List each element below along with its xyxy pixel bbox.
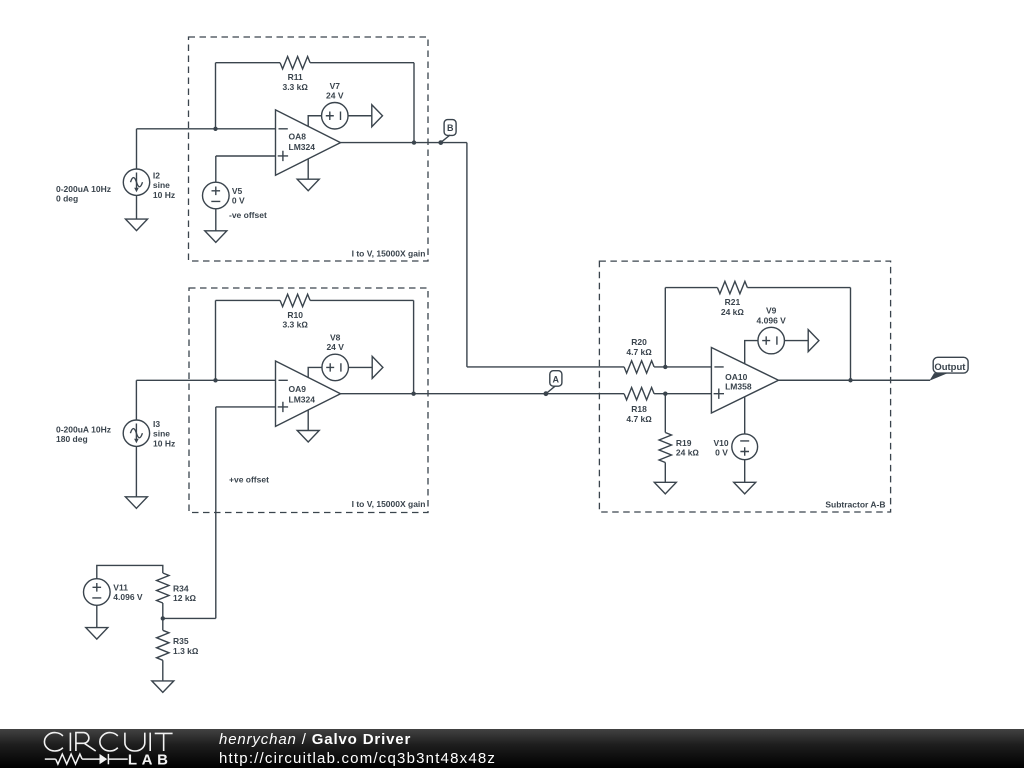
svg-text:LM358: LM358 [725,382,752,392]
wire V9 to ground [785,340,809,342]
wire OA10 V- pin to V10 [744,397,746,434]
svg-text:R21: R21 [725,297,741,307]
op-amp OA10 [711,348,778,413]
CircuitLab logo resistor [56,754,82,764]
ground (under V5) [205,209,227,243]
node junction dot (R19 tap) [663,392,667,396]
wire OA8 output [341,142,467,144]
wire OA10 output [779,379,931,381]
svg-text:sine: sine [153,429,170,439]
svg-text:http://circuitlab.com/cq3b3nt4: http://circuitlab.com/cq3b3nt48x48z [219,750,496,767]
svg-text:I2: I2 [153,170,160,180]
ground (under R35) [152,681,174,693]
wire R21 right vertical [850,288,852,381]
resistor R10 [280,294,310,329]
svg-text:V11: V11 [113,582,128,592]
svg-text:10 Hz: 10 Hz [153,190,175,200]
CircuitLab logo letters CIRCUIT (drawn) [44,733,172,751]
resistor R19 [659,394,699,463]
wire R20 to OA10 inverting input [654,366,711,368]
resistor R21 [717,281,747,316]
wire R21 left vertical [664,288,666,367]
svg-text:Subtractor A-B: Subtractor A-B [825,500,885,510]
op-amp OA8 [276,110,341,175]
svg-text:V7: V7 [330,81,341,91]
voltage source V5 [203,182,267,220]
wire OA10 V+ pin to V9 [745,341,758,364]
wire OA8 V- pin to ground [307,159,309,179]
wire inverting input (stage 2) [136,379,275,381]
ground (under I3) [125,446,147,508]
wire inverting input (stage 1) [137,128,276,130]
svg-text:OA8: OA8 [289,131,307,141]
node junction dot (stage 1 inverting input) [213,127,217,131]
wire R34 to junction [162,603,164,618]
wire feedback top-right (stage 1) [310,62,414,64]
svg-text:henrychan / Galvo Driver: henrychan / Galvo Driver [219,731,411,748]
svg-text:OA9: OA9 [289,384,307,394]
wire feedback left vertical (stage 1) [215,63,217,129]
CircuitLab logo schematic row: wire [45,758,56,760]
wire +ve offset vertical (stage 2 to divider) [215,407,217,619]
node junction dot (stage 1 output) [412,140,416,144]
svg-text:R20: R20 [631,337,647,347]
wire V5 to non-inverting input [215,156,217,182]
svg-text:24 kΩ: 24 kΩ [721,307,745,317]
svg-text:0 deg: 0 deg [56,194,78,204]
wire feedback right vertical (stage 2) [413,300,415,393]
svg-text:-ve offset: -ve offset [229,210,267,220]
svg-text:0-200uA 10Hz: 0-200uA 10Hz [56,184,111,194]
svg-text:24 V: 24 V [326,91,344,101]
svg-text:1.3 kΩ: 1.3 kΩ [173,646,199,656]
wire V7 to ground [348,115,372,117]
svg-text:4.096 V: 4.096 V [113,592,143,602]
wire R21 top-left [665,287,717,289]
wire V10 to ground [744,460,746,483]
svg-text:4.096 V: 4.096 V [757,315,787,325]
wire feedback top-left (stage 1) [216,62,281,64]
svg-text:4.7 kΩ: 4.7 kΩ [626,347,652,357]
svg-text:LAB: LAB [128,751,173,768]
svg-text:R18: R18 [631,404,647,414]
op-amp OA9 [276,361,341,426]
ground (right of V7, rotated) [372,105,383,127]
svg-text:+ve offset: +ve offset [229,474,269,484]
voltage source V11 [84,579,143,606]
node A flag [544,371,562,396]
svg-text:3.3 kΩ: 3.3 kΩ [282,320,308,330]
wire R35 to ground [162,660,164,681]
wire node B to R20 [467,366,624,368]
svg-text:R35: R35 [173,636,189,646]
node junction dot (output feedback tap) [848,378,852,382]
node B flag [438,120,456,145]
wire feedback right vertical (stage 1) [413,63,415,143]
node junction dot (R21 tap) [663,365,667,369]
voltage source V9 [757,306,787,354]
svg-text:R34: R34 [173,584,189,594]
svg-text:OA10: OA10 [725,372,747,382]
ground (under OA8) [297,179,319,191]
wire I3 to input [135,380,137,420]
svg-text:3.3 kΩ: 3.3 kΩ [282,82,308,92]
svg-text:B: B [447,123,454,133]
svg-text:10 Hz: 10 Hz [153,438,175,448]
svg-text:A: A [553,375,560,385]
svg-text:R10: R10 [287,310,303,320]
voltage source V7 [322,81,349,129]
wire I2 to input [136,129,138,169]
svg-text:0-200uA 10Hz: 0-200uA 10Hz [56,424,111,434]
svg-text:V10: V10 [713,438,728,448]
svg-text:I to V, 15000X gain: I to V, 15000X gain [352,499,426,509]
resistor R35 [157,618,199,660]
annotation box: I to V stage 1 [189,37,429,261]
ground (under OA9) [297,431,319,443]
node junction dot (stage 2 inverting input) [213,378,217,382]
svg-text:sine: sine [153,180,170,190]
svg-text:12 kΩ: 12 kΩ [173,593,197,603]
svg-text:180 deg: 180 deg [56,434,88,444]
wire feedback left vertical (stage 2) [215,300,217,380]
svg-text:V5: V5 [232,186,243,196]
ground (under V10) [734,482,756,494]
voltage source V8 [322,333,349,381]
current source I3 [56,419,175,448]
CircuitLab logo diode [100,754,108,764]
node junction dot (stage 2 output) [411,392,415,396]
svg-text:LM324: LM324 [289,142,316,152]
svg-text:R11: R11 [288,72,303,82]
node Output flag [929,357,968,381]
wire V11 to ground [96,605,98,627]
svg-text:I3: I3 [153,419,160,429]
wire OA9 V- pin to ground [307,410,309,430]
svg-text:4.7 kΩ: 4.7 kΩ [626,414,652,424]
annotation box: Subtractor A-B [599,261,890,512]
footer bar [0,729,1024,768]
wire R18 to OA10 non-inverting input [654,393,711,395]
wire V8 to ground [349,366,373,368]
resistor R20 [624,337,654,373]
wire non-inverting input (stage 1) [216,155,276,157]
wire non-inverting input (stage 2) [216,406,276,408]
svg-text:Output: Output [934,362,966,373]
ground (right of V9, rotated) [808,330,819,352]
resistor R18 [624,388,654,424]
node junction dot (divider tap) [161,616,165,620]
svg-text:V9: V9 [766,306,777,316]
svg-text:0 V: 0 V [715,448,728,458]
wire OA9 output to R18 (node A line) [341,393,625,395]
wire V11 to R34 [97,565,163,578]
wire feedback top-left (stage 2) [216,299,281,301]
wire R21 top-right [747,287,850,289]
ground (under I2) [126,195,148,230]
svg-text:LM324: LM324 [289,395,316,405]
wire node B vertical [466,143,468,367]
svg-text:V8: V8 [330,333,341,343]
wire divider tap to +ve offset vertical [163,617,216,619]
svg-text:R19: R19 [676,438,692,448]
svg-text:0 V: 0 V [232,196,245,206]
ground (under V11) [86,628,108,640]
svg-text:24 kΩ: 24 kΩ [676,448,700,458]
wire feedback top-right (stage 2) [310,299,414,301]
annotation box: I to V stage 2 [189,288,428,513]
ground (under R19) [654,482,676,494]
current source I2 [56,169,175,204]
CircuitLab logo wire 2 [82,758,99,760]
resistor R34 [157,573,197,603]
wire OA9 V+ pin to V8 [308,367,322,377]
ground (right of V8, rotated) [372,356,383,378]
resistor R11 [280,57,310,92]
svg-text:I to V, 15000X gain: I to V, 15000X gain [352,249,426,259]
wire R19 to ground [664,463,666,483]
CircuitLab logo wire 3 [108,758,127,760]
voltage source V10 [713,434,757,460]
svg-text:24 V: 24 V [326,342,344,352]
wire OA8 V+ pin to V7 [308,116,321,127]
